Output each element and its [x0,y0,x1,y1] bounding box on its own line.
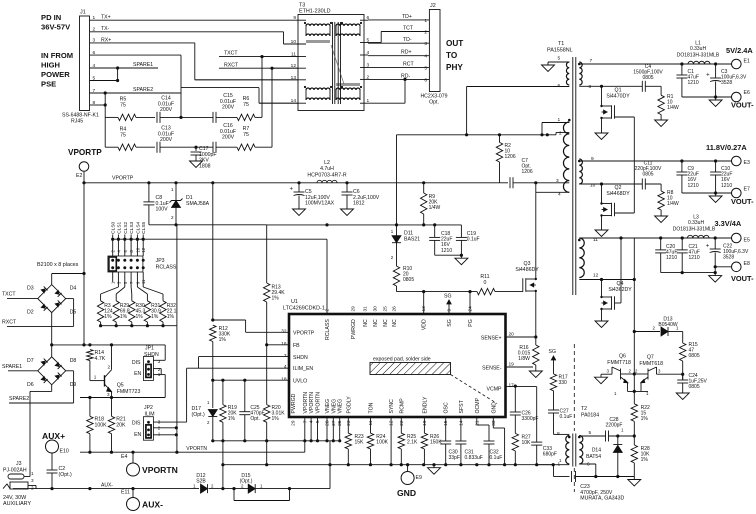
svg-text:NC: NC [392,319,398,327]
wire 5V return [682,96,732,98]
svg-text:U1: U1 [291,299,298,305]
ground T1 pin 5 [548,61,569,63]
svg-text:5: 5 [315,420,321,423]
svg-text:FMMT618: FMMT618 [639,361,663,367]
svg-text:8: 8 [589,84,592,90]
svg-text:22: 22 [399,420,405,426]
svg-text:IN FROM: IN FROM [41,51,73,60]
wire RCT [368,67,429,69]
svg-text:PA0184: PA0184 [581,413,599,419]
svg-text:D2: D2 [27,310,34,316]
svg-text:1%: 1% [228,416,236,422]
capacitor C16 0.01uF 200V [196,146,213,148]
svg-text:4: 4 [309,420,315,423]
svg-text:E11: E11 [121,490,130,496]
wire SENSE- [506,366,534,368]
svg-text:VPORTP: VPORTP [68,148,102,157]
svg-text:150K: 150K [430,440,442,446]
svg-text:E5: E5 [744,238,750,244]
capacitor C22 100uF 6.3V 3528 [714,238,716,249]
resistor R1 10 1/4W [660,86,662,95]
resistor R27 10K [512,433,518,451]
resistor R14 4.7K [87,350,93,361]
svg-text:NC: NC [383,319,389,327]
svg-text:1210: 1210 [688,183,699,189]
ground symbol on VNEG rail [433,465,435,468]
svg-text:SPARE1: SPARE1 [2,364,22,370]
svg-text:EN: EN [134,432,141,438]
svg-text:2: 2 [108,364,111,369]
wire T2 pin 5 row [579,435,605,437]
svg-text:TON: TON [369,402,375,413]
node E1 terminal [732,59,742,69]
resistor R20 3.01K 1% [264,405,270,423]
svg-text:PJ-002AH: PJ-002AH [3,468,27,474]
svg-text:3: 3 [284,353,287,359]
T1 secondary 7-8 [579,62,582,85]
svg-text:33pF: 33pF [449,455,460,461]
svg-text:3528: 3528 [723,255,734,261]
svg-text:4.7K: 4.7K [95,356,106,362]
svg-text:0.1uF: 0.1uF [467,237,480,243]
wire VPORTP rail [84,182,500,184]
svg-text:1210: 1210 [666,255,677,261]
svg-text:MURATA, GA343D: MURATA, GA343D [580,496,624,502]
ground 11.8V return [715,193,717,196]
svg-text:+: + [706,244,710,250]
ground Q4 source [601,312,603,318]
svg-text:200V: 200V [222,105,235,111]
svg-text:RJ45: RJ45 [71,119,83,125]
resistor R29 69.8 1% [113,301,119,322]
svg-text:DIS: DIS [132,360,141,366]
wire class resistor rail [100,322,102,326]
svg-text:B2100 x 8 places: B2100 x 8 places [37,262,79,268]
svg-text:PWRGD: PWRGD [291,393,297,413]
wire bridge2 bottom to J3 [51,385,53,392]
capacitor C14 0.01uF 200V [156,112,158,123]
transistor Q5 FMMT723 [89,361,91,381]
svg-text:SG: SG [549,349,557,355]
svg-text:GND: GND [397,488,416,498]
svg-text:1/4W: 1/4W [667,201,679,207]
pin drops to rails [347,440,349,442]
svg-text:29: 29 [351,306,357,312]
svg-text:1%: 1% [104,314,112,320]
ground R16 [535,365,537,368]
resistor R31 30.9 1% [144,301,150,322]
svg-text:1%: 1% [641,457,649,463]
wire 3.3V rail [579,237,731,239]
svg-text:0.1uF: 0.1uF [560,414,573,420]
wire driver emitters [628,390,649,392]
wire T1 pin 4 to Q3 [535,183,537,193]
wire TD- [368,42,429,44]
svg-text:HCP0703-4R7-R: HCP0703-4R7-R [307,173,346,179]
svg-text:4: 4 [284,364,287,370]
svg-text:SENSE-: SENSE- [482,365,502,371]
capacitor C15 0.01uF 200V [181,116,213,118]
svg-text:4.7uH: 4.7uH [320,166,334,172]
svg-text:VOUT-: VOUT- [731,274,754,283]
wire C8/D1 return [149,224,267,226]
svg-text:VPORTN: VPORTN [316,392,322,414]
svg-text:0.33uH: 0.33uH [690,46,707,52]
diode D15 (Opt.) [248,484,255,493]
svg-text:1%: 1% [151,314,159,320]
svg-text:1: 1 [171,187,174,192]
svg-text:PWRGD: PWRGD [351,319,357,339]
wire T2 pin 1 down [553,465,555,477]
svg-text:SPARE1: SPARE1 [133,62,153,68]
wire TX- (J1.2 to T3.10) [90,31,284,33]
svg-text:1%: 1% [272,296,280,302]
wire RD- [368,78,429,80]
capacitor C18 22uF 16V 1210 [434,225,436,238]
ground 3.3V return [714,273,716,276]
svg-text:12: 12 [141,247,146,252]
svg-text:1: 1 [158,432,161,437]
svg-text:12: 12 [389,420,395,426]
svg-text:VOUT-: VOUT- [731,197,754,206]
svg-text:E7: E7 [744,187,750,193]
svg-text:1/8W: 1/8W [518,356,530,362]
svg-text:VNEG: VNEG [325,399,331,414]
svg-text:CLS5: CLS5 [141,221,147,233]
wire VDD drop [423,292,425,314]
ground driver return [633,477,635,480]
svg-text:OUT: OUT [446,39,463,48]
wire cap return [435,254,462,256]
svg-text:0805: 0805 [642,75,653,81]
svg-text:PGDLY: PGDLY [346,396,352,414]
svg-text:Q7: Q7 [647,355,654,361]
svg-text:100MV12AX: 100MV12AX [305,201,335,207]
svg-text:RD-: RD- [401,73,410,79]
connector JP3 RCLASS [108,256,143,272]
svg-text:CLS3: CLS3 [129,221,135,233]
capacitor C24 1uF 25V 0805 [682,374,684,380]
ground Q1 source [601,121,603,130]
svg-text:11: 11 [141,279,146,284]
svg-text:E10: E10 [60,449,69,455]
wire T2 secondary bottom [579,463,596,465]
svg-text:VCMP: VCMP [487,386,503,392]
svg-text:Opt.: Opt. [250,416,259,422]
svg-text:32: 32 [281,328,287,334]
resistor R2 10 1206 [499,135,501,143]
wire pin 11 to driver [633,238,635,391]
svg-text:E2: E2 [76,173,82,179]
wire ILIM_EN [187,367,289,369]
svg-text:CLS2: CLS2 [123,221,129,233]
svg-text:20K: 20K [116,422,126,428]
T2 core [572,434,574,467]
svg-text:J2: J2 [430,3,436,9]
svg-text:7: 7 [590,58,593,64]
svg-text:27: 27 [331,420,337,426]
ground Q6 collector [600,374,602,377]
svg-text:330: 330 [559,380,568,386]
svg-text:CLS1: CLS1 [116,221,122,233]
diode D12 S2B [201,484,208,493]
svg-text:100K: 100K [95,422,108,428]
connector J2 HC2X3-079 [429,10,440,92]
svg-text:11.8V/0.27A: 11.8V/0.27A [706,143,747,152]
wire VPORTN vertical [176,326,178,453]
JP3 fanout wires [112,272,114,282]
svg-text:1/4W: 1/4W [429,205,441,211]
svg-text:1%: 1% [272,416,280,422]
wire J1.6 to termination [90,54,182,56]
svg-text:D3: D3 [27,286,34,292]
svg-text:0805: 0805 [689,384,700,390]
node E10 terminal [46,440,59,453]
resistor R10 20 0805 [393,266,399,286]
svg-text:1812: 1812 [353,201,365,207]
svg-text:17: 17 [509,382,515,388]
svg-text:0805: 0805 [689,353,700,359]
svg-text:RXCT: RXCT [224,62,239,68]
T2 windings [566,436,570,465]
wire TCT [381,31,429,33]
svg-text:FB: FB [293,343,300,349]
JP2 wires [153,421,186,423]
resistor R16 0.015 1/8W [533,345,539,365]
wire 11.8V return [682,192,732,194]
resistor R6 75 [237,114,255,120]
wire Q1 drain rail [579,85,642,87]
U1 PG pin wire [469,292,471,314]
wire 11.8V rail [579,160,731,162]
svg-text:Si4468DY: Si4468DY [606,191,630,197]
svg-text:7: 7 [302,420,308,423]
svg-text:Si4362DY: Si4362DY [608,287,632,293]
node E8 terminal [715,266,731,268]
wire RX+ (J1.3 to T3.13) [90,42,195,44]
resistor R22 15 1% [631,404,637,422]
svg-text:1206: 1206 [522,169,533,175]
wire TXCT to bridge [7,298,38,300]
svg-text:15: 15 [443,420,449,426]
svg-text:24: 24 [468,306,474,312]
inductor L3 0.33uH DO1813H-331MLB [688,235,710,238]
svg-text:RCMP: RCMP [399,398,405,414]
svg-text:JP2: JP2 [144,405,153,411]
svg-text:D8: D8 [70,358,77,364]
svg-text:SMAJ58A: SMAJ58A [186,201,210,207]
svg-text:1210: 1210 [688,80,699,86]
ground Q2 source [601,219,603,228]
svg-text:30: 30 [373,306,379,312]
ground C24 [682,390,684,393]
svg-text:D5: D5 [70,310,77,316]
svg-text:HIGH: HIGH [41,61,60,70]
svg-text:Q5: Q5 [117,383,124,389]
wire bias top link [181,87,259,89]
resistor R5 75 [118,114,136,120]
svg-text:10K: 10K [522,440,532,446]
svg-text:1808: 1808 [199,163,211,169]
capacitor C8 0.1uF 100V [148,183,150,202]
ground R1 [660,115,662,117]
svg-text:D14: D14 [592,448,601,454]
resistor R25 2.1K [400,417,402,433]
svg-text:J3: J3 [16,461,22,467]
svg-text:D6: D6 [27,382,34,388]
resistor R15 47 0805 [682,332,684,344]
svg-text:18: 18 [281,376,287,382]
resistor R8 10 1/4W [660,184,662,191]
svg-text:RCT: RCT [403,62,414,68]
capacitor C19 0.1uF [460,225,462,238]
svg-text:TX-: TX- [101,26,110,32]
svg-text:GND: GND [491,402,497,414]
svg-text:5: 5 [589,430,592,436]
svg-text:6: 6 [424,77,427,83]
svg-text:BAT54: BAT54 [586,454,601,460]
isolation dashed line [573,344,575,431]
svg-text:SYNC: SYNC [389,399,395,414]
svg-text:SPARE2: SPARE2 [133,87,153,93]
resistor R4 75 [105,146,118,148]
svg-text:E8: E8 [744,261,750,267]
svg-text:CLS0: CLS0 [111,221,117,233]
svg-text:(Opt.): (Opt.) [240,479,253,485]
node E9 GND terminal [407,465,409,473]
wire negative rail y345 [52,344,166,346]
svg-text:TX+: TX+ [101,15,111,21]
wire to T3.1 [404,79,406,103]
svg-text:SENSE+: SENSE+ [481,335,502,341]
wire TD+ [368,19,429,21]
capacitor C26 3300pF [514,386,516,412]
svg-text:31: 31 [363,306,369,312]
resistor R13 29.4K 1% [266,225,268,283]
resistor R18 100K [89,398,91,417]
wire SENSE+ [506,336,536,338]
resistor R28 10K 1% [631,445,637,463]
resistor R30 45.3 1% [129,301,135,322]
wire Q2 drain rail [579,183,642,185]
svg-text:1/4W: 1/4W [667,105,679,111]
svg-text:AUXILIARY: AUXILIARY [3,501,31,507]
svg-text:26: 26 [337,420,343,426]
capacitor C27 0.1uF [553,391,555,410]
svg-text:10: 10 [590,183,596,189]
diode bridge D7 D8 D6 D9 [38,357,66,385]
svg-text:0805: 0805 [642,172,653,178]
wire RXCT to bridge [7,325,74,327]
wire bias winding feed [396,135,398,225]
node E7 terminal [732,188,742,198]
svg-text:19: 19 [422,420,428,426]
wire SPARE2 (J1.7, J1.8) [90,92,182,94]
svg-text:10: 10 [135,247,140,252]
svg-text:RCLASS: RCLASS [325,319,331,340]
svg-text:EN: EN [134,371,141,377]
capacitor C23 4700pF 250V MURATA GA343D [571,471,573,482]
capacitor C25 470pF Opt. [244,380,246,412]
svg-text:E1: E1 [744,59,750,65]
svg-text:75: 75 [243,102,249,108]
svg-text:16: 16 [281,341,287,347]
svg-text:PD IN: PD IN [41,13,61,22]
svg-text:1%: 1% [136,314,144,320]
wire SPARE1 (J1.4, J1.5) [90,67,159,69]
capacitor C30 33pF [445,417,447,441]
wire T2 pin 1 to gnd rail [537,464,570,466]
svg-text:1: 1 [94,375,97,380]
svg-text:15K: 15K [355,440,365,446]
wire bridge1 - output [51,313,53,345]
wire Q4 drain rail pin12 [579,279,634,281]
svg-text:1: 1 [31,471,34,476]
inductor L2 4.7uH HCP0703-4R7-R [317,180,337,183]
svg-text:VPORTN: VPORTN [309,392,315,414]
wire primary rail [397,134,557,136]
wire VNEG rail [223,464,554,466]
resistor R7 75 [237,144,255,150]
ground C18 C19 [460,255,462,258]
svg-text:VPORTN: VPORTN [186,446,207,452]
node E4 VPORTN terminal [132,452,134,464]
svg-text:JP1: JP1 [145,345,154,351]
capacitor C5 12uF 100V 100MV12AX [298,183,300,192]
node E6 terminal [732,92,742,102]
wire VCMP [506,386,537,388]
capacitor C3 100uF 6.3V 3528 [715,64,717,78]
svg-text:PA1558NL: PA1558NL [547,48,573,54]
capacitor C32 0.1uF [476,417,478,425]
svg-text:33: 33 [491,420,497,426]
svg-text:PG: PG [468,319,474,327]
svg-text:75: 75 [243,132,249,138]
wire VPORTP vertical [83,183,85,345]
svg-text:RD+: RD+ [401,50,412,56]
svg-text:TXCT: TXCT [2,292,16,298]
svg-text:29: 29 [291,420,297,426]
T1 secondary 9-10 [579,159,582,184]
svg-text:AUX-: AUX- [101,483,113,489]
wire 3.3V return [661,272,716,274]
svg-text:5V/2.4A: 5V/2.4A [726,46,753,55]
capacitor C6 2.2uF 100V 1812 [346,183,348,192]
resistor R19 20K 1% [222,380,224,404]
node E3 terminal [732,156,742,166]
svg-text:5: 5 [424,66,427,72]
svg-text:(Opt.): (Opt.) [192,412,206,418]
svg-text:1%: 1% [167,314,175,320]
svg-text:AUX+: AUX+ [42,431,65,441]
svg-text:NC: NC [373,319,379,327]
svg-text:3: 3 [158,359,161,364]
capacitor C17 1000pF 2KV 1808 to chassis [195,147,197,151]
T1 secondary 11-12 [579,238,584,278]
svg-text:RCLASS: RCLASS [156,265,177,271]
U1 GND pin route [492,417,494,428]
wire Q1 gate cross-couple [615,116,635,118]
resistor R12 330K 1% [210,325,216,341]
svg-text:E4: E4 [121,454,127,460]
wire R12 VPORTP tap to pin 32 [212,183,214,320]
svg-text:3.3V/4A: 3.3V/4A [715,219,742,228]
svg-text:12: 12 [593,273,599,279]
ground R8 [660,210,662,213]
svg-text:100V: 100V [156,207,169,213]
svg-text:AUX-: AUX- [142,500,163,510]
wire T1 pins 1-2 [542,122,569,124]
